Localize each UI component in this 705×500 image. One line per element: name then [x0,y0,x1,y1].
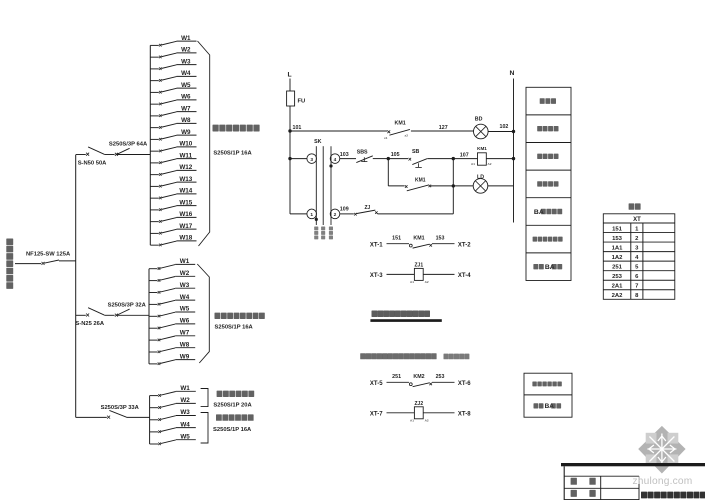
svg-text:2: 2 [334,212,337,218]
svg-text:A1: A1 [410,280,414,284]
svg-text:W3: W3 [180,282,190,289]
svg-text:W1: W1 [180,258,190,265]
svg-text:KM1: KM1 [415,178,426,184]
svg-text:W2: W2 [180,270,190,277]
svg-text:XT: XT [633,217,641,223]
svg-text:1A2: 1A2 [612,255,624,261]
svg-text:101: 101 [293,125,302,131]
svg-text:127: 127 [439,125,448,131]
svg-text:W9: W9 [180,353,190,360]
svg-text:W5: W5 [180,306,190,313]
svg-text:A1: A1 [410,418,414,422]
svg-text:L: L [288,72,292,79]
svg-text:KM1: KM1 [477,146,487,151]
svg-text:x2: x2 [405,134,409,138]
svg-text:W2: W2 [181,47,191,54]
svg-text:151: 151 [612,226,623,232]
svg-text:W18: W18 [179,235,192,242]
svg-text:A2: A2 [488,162,492,166]
svg-text:W17: W17 [179,223,192,230]
svg-text:ZJ: ZJ [365,205,371,211]
svg-text:A2: A2 [425,418,429,422]
svg-text:253: 253 [436,374,445,380]
svg-text:A2: A2 [425,280,429,284]
svg-text:W15: W15 [179,199,192,206]
svg-text:SB: SB [412,149,420,155]
svg-text:1A1: 1A1 [612,245,624,251]
svg-text:102: 102 [500,124,509,130]
svg-text:W7: W7 [180,330,190,337]
svg-text:W4: W4 [181,70,191,77]
svg-text:x1: x1 [384,136,388,140]
svg-text:A1: A1 [471,162,475,166]
svg-text:zhulong.com: zhulong.com [633,476,693,487]
svg-text:LD: LD [477,175,484,181]
svg-text:153: 153 [436,236,445,242]
svg-text:W8: W8 [181,117,191,124]
svg-text:W6: W6 [180,318,190,325]
svg-text:N: N [510,70,515,77]
svg-text:SK: SK [314,139,322,145]
svg-text:4: 4 [334,157,337,163]
svg-text:S250S/3P 64A: S250S/3P 64A [109,141,148,147]
svg-text:SBS: SBS [357,149,368,155]
svg-text:ZJ1: ZJ1 [414,263,423,269]
svg-text:109: 109 [340,206,349,212]
svg-text:S250S/1P 16A: S250S/1P 16A [213,151,252,157]
svg-text:NF125-SW 125A: NF125-SW 125A [26,252,71,258]
svg-text:XT-2: XT-2 [458,242,471,248]
svg-text:W9: W9 [181,129,191,136]
svg-text:S250S/3P 33A: S250S/3P 33A [101,405,140,411]
svg-text:XT-6: XT-6 [458,381,471,387]
svg-text:2A1: 2A1 [612,284,624,290]
svg-text:S250S/1P 16A: S250S/1P 16A [213,427,252,433]
svg-text:S-N25 26A: S-N25 26A [75,321,104,327]
svg-text:BD: BD [475,117,483,123]
svg-text:105: 105 [391,152,400,158]
svg-text:S-N50 50A: S-N50 50A [78,160,107,166]
svg-text:W3: W3 [180,409,190,416]
svg-text:251: 251 [392,374,401,380]
svg-text:3: 3 [310,157,313,163]
svg-text:S250S/1P 20A: S250S/1P 20A [213,403,252,409]
svg-text:XT-7: XT-7 [370,411,383,417]
svg-text:W5: W5 [180,433,190,440]
svg-text:W7: W7 [181,105,191,112]
svg-text:W16: W16 [179,211,192,218]
svg-text:KM1: KM1 [395,120,406,126]
svg-text:1: 1 [310,212,313,218]
svg-text:S250S/3P 32A: S250S/3P 32A [108,303,147,309]
svg-text:W8: W8 [180,341,190,348]
svg-text:FU: FU [298,99,306,105]
svg-text:W14: W14 [179,188,192,195]
svg-text:KM2: KM2 [413,374,424,380]
svg-text:153: 153 [612,236,623,242]
svg-text:XT-4: XT-4 [458,273,471,279]
svg-text:KM1: KM1 [413,236,424,242]
svg-text:W1: W1 [180,385,190,392]
svg-text:107: 107 [460,153,469,159]
svg-text:S250S/1P 16A: S250S/1P 16A [215,324,254,330]
svg-text:W13: W13 [179,176,192,183]
svg-text:103: 103 [340,152,349,158]
svg-text:W12: W12 [179,164,192,171]
svg-text:251: 251 [612,265,623,271]
svg-text:W6: W6 [181,94,191,101]
svg-text:W2: W2 [180,397,190,404]
svg-text:ZJ2: ZJ2 [414,401,423,407]
svg-text:W3: W3 [181,58,191,65]
svg-text:W11: W11 [179,152,192,159]
svg-text:151: 151 [392,236,401,242]
svg-text:W4: W4 [180,421,190,428]
svg-text:XT-5: XT-5 [370,381,383,387]
svg-text:2A2: 2A2 [612,293,624,299]
svg-text:253: 253 [612,274,623,280]
svg-text:W4: W4 [180,294,190,301]
svg-text:XT-1: XT-1 [370,242,383,248]
svg-text:XT-8: XT-8 [458,411,471,417]
svg-text:W10: W10 [179,141,192,148]
svg-text:W5: W5 [181,82,191,89]
svg-text:W1: W1 [181,35,191,42]
svg-text:XT-3: XT-3 [370,273,383,279]
